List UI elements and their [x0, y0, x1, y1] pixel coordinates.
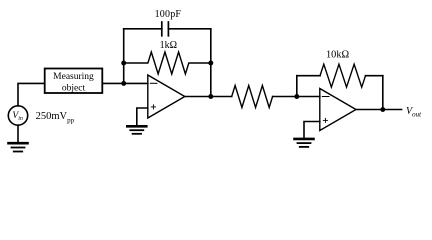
node junction at feedback1 right / R1 [208, 61, 213, 66]
op-amp U1 minus [150, 82, 157, 84]
node junction at op-amp U2 inverting input [294, 94, 299, 99]
wire R2 to op-amp U2 inverting input [273, 96, 320, 98]
wire feedback2 right vertical [382, 76, 384, 110]
op-amp U2 plus [323, 118, 327, 122]
svg-text:Measuring: Measuring [53, 72, 94, 82]
capacitor C1 100pF plates [162, 22, 169, 36]
wire feedback2 left vertical [296, 76, 298, 97]
wire op-amp U2 plus to ground [304, 122, 320, 139]
measuring object box [45, 69, 103, 94]
resistor R1 1k zigzag [124, 52, 211, 74]
wire op-amp U1 output [185, 96, 232, 98]
wire feedback1 right vertical [210, 29, 212, 97]
node junction at op-amp U1 output [208, 94, 213, 99]
ground (under source) [9, 143, 28, 151]
op-amp U1 plus [151, 105, 155, 109]
wire capacitor branch left [124, 28, 162, 30]
svg-text:object: object [62, 84, 86, 94]
node junction at feedback1 left / input wire [121, 81, 126, 86]
svg-text:100pF: 100pF [155, 9, 182, 20]
resistor R2 series zigzag [232, 86, 273, 108]
node junction at feedback1 left / R1 [121, 61, 126, 66]
node junction at op-amp U2 output [380, 107, 385, 112]
svg-text:1kΩ: 1kΩ [160, 40, 177, 51]
voltage source Vin [8, 106, 27, 125]
ground (op-amp U2 plus) [295, 139, 314, 147]
wire feedback2 top right [366, 75, 383, 77]
wire feedback2 top left [297, 75, 320, 77]
ground (op-amp U1 plus) [127, 126, 146, 134]
wire feedback1 left vertical [123, 29, 125, 84]
wire capacitor branch right [168, 28, 210, 30]
wire box to op-amp U1 inverting input [102, 82, 148, 84]
svg-text:10kΩ: 10kΩ [326, 50, 349, 61]
wire source top to box [18, 83, 45, 105]
resistor R3 10k zigzag [320, 64, 366, 87]
op-amp U1 triangle [148, 75, 185, 118]
op-amp U2 minus [322, 96, 329, 98]
wire op-amp U1 plus to ground [137, 108, 148, 126]
wire source bottom to ground [17, 125, 19, 142]
op-amp U2 triangle [320, 89, 356, 131]
wire op-amp U2 output to Vout [356, 109, 402, 111]
